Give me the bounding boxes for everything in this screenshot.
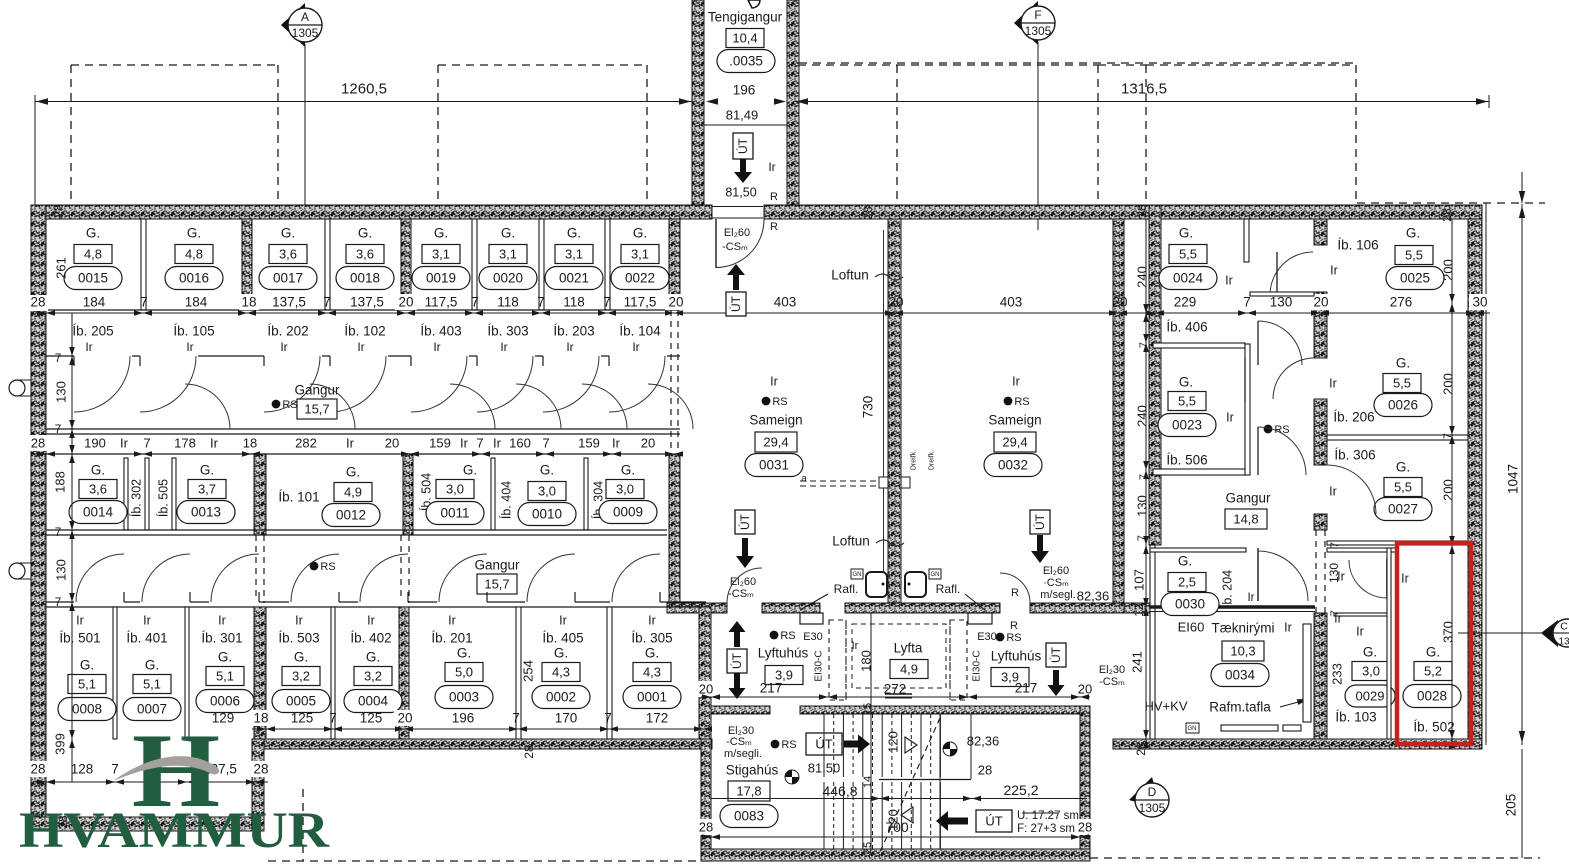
partition 0021/0022 — [605, 219, 610, 310]
svg-text:7: 7 — [604, 711, 612, 726]
svg-text:170: 170 — [555, 711, 578, 726]
door from tengigangur into building — [712, 206, 763, 208]
svg-text:Íb. 404: Íb. 404 — [498, 481, 513, 519]
svg-text:Lyftuhús: Lyftuhús — [991, 649, 1042, 664]
svg-text:5,5: 5,5 — [1394, 480, 1412, 495]
svg-text:4,8: 4,8 — [185, 247, 203, 262]
svg-text:Íb. 201: Íb. 201 — [431, 631, 472, 646]
svg-text:Íb. 105: Íb. 105 — [173, 324, 214, 339]
svg-text:GN: GN — [853, 572, 862, 578]
partition 0024 — [1244, 219, 1249, 262]
svg-text:7: 7 — [476, 436, 483, 451]
partition 0023 east — [1245, 344, 1250, 475]
svg-text:Ir: Ir — [143, 613, 151, 627]
svg-text:217: 217 — [1015, 681, 1038, 696]
partition 405/305 — [607, 607, 612, 739]
wall seg — [1124, 603, 1150, 613]
svg-text:RS: RS — [772, 396, 787, 408]
svg-text:E30: E30 — [977, 631, 997, 643]
svg-text:125: 125 — [291, 711, 314, 726]
svg-text:82,36: 82,36 — [967, 734, 1000, 749]
svg-text:0009: 0009 — [613, 505, 643, 520]
corridor 2 doors (bottom rooms) — [74, 599, 124, 605]
svg-text:18: 18 — [241, 295, 256, 310]
svg-text:7: 7 — [1329, 610, 1341, 616]
partition 302/505 — [145, 458, 149, 530]
svg-text:G.: G. — [145, 658, 159, 673]
svg-text:7: 7 — [1329, 542, 1341, 548]
svg-text:3,1: 3,1 — [565, 247, 583, 262]
svg-text:0014: 0014 — [83, 505, 114, 520]
svg-text:0017: 0017 — [273, 271, 303, 286]
svg-text:0015: 0015 — [78, 271, 108, 286]
wall y603 c — [845, 603, 1000, 613]
partition 0010/0009 — [584, 458, 588, 530]
dim row y782 far west — [35, 781, 268, 783]
partition 0017/0018 — [325, 219, 330, 310]
svg-text:196: 196 — [733, 83, 756, 98]
left wall protrusions — [20, 380, 31, 396]
svg-text:G.: G. — [1178, 554, 1192, 569]
svg-text:200: 200 — [1441, 479, 1456, 501]
dimension 1316,5 — [795, 101, 1489, 103]
svg-text:Ir: Ir — [85, 340, 92, 354]
svg-text:20: 20 — [1313, 295, 1328, 310]
svg-text:RS: RS — [780, 630, 795, 642]
dim row bottom rooms y729 — [252, 728, 711, 730]
svg-text:200: 200 — [1441, 259, 1456, 281]
dim row y454 — [35, 453, 681, 455]
svg-text:Íb. 501: Íb. 501 — [59, 631, 100, 646]
svg-text:20: 20 — [1112, 295, 1127, 310]
svg-text:0029: 0029 — [1356, 689, 1385, 704]
dashed outline bottom — [268, 860, 710, 862]
bottom wall west wing — [252, 739, 712, 749]
svg-text:R: R — [1010, 620, 1018, 632]
svg-text:F: F — [1034, 8, 1041, 22]
svg-text:130: 130 — [1270, 295, 1293, 310]
svg-text:3,0: 3,0 — [1362, 664, 1380, 679]
svg-text:G.: G. — [200, 463, 214, 478]
svg-text:Íb. 401: Íb. 401 — [126, 631, 167, 646]
svg-text:Loftun: Loftun — [832, 534, 870, 549]
svg-text:5,1: 5,1 — [143, 677, 161, 692]
svg-text:130: 130 — [1327, 563, 1341, 583]
svg-text:403: 403 — [1000, 295, 1023, 310]
svg-text:184: 184 — [83, 295, 106, 310]
svg-text:A: A — [301, 10, 309, 24]
svg-text:3,2: 3,2 — [292, 669, 310, 684]
svg-text:1047: 1047 — [1506, 464, 1521, 494]
top wall east — [764, 205, 1482, 219]
svg-text:Stigahús: Stigahús — [726, 763, 779, 778]
svg-text:240: 240 — [1135, 266, 1150, 288]
svg-text:25: 25 — [862, 842, 874, 854]
svg-text:Íb. 204: Íb. 204 — [1219, 570, 1234, 608]
svg-text:15,7: 15,7 — [304, 402, 329, 417]
svg-text:200: 200 — [1441, 373, 1456, 395]
svg-text:R: R — [770, 221, 778, 233]
svg-text:m/segl.: m/segl. — [1040, 589, 1075, 601]
svg-text:-CSₘ: -CSₘ — [1099, 676, 1125, 688]
svg-text:0032: 0032 — [998, 458, 1028, 473]
svg-text:Íb. 206: Íb. 206 — [1333, 410, 1374, 425]
svg-text:Ir: Ir — [186, 340, 193, 354]
svg-text:20: 20 — [641, 436, 655, 451]
svg-text:29,4: 29,4 — [763, 435, 788, 450]
svg-text:G.: G. — [645, 646, 659, 661]
svg-text:107: 107 — [1132, 569, 1147, 591]
svg-text:5,5: 5,5 — [1405, 248, 1423, 263]
svg-text:Gangur: Gangur — [1225, 491, 1271, 506]
svg-text:Tæknirými: Tæknirými — [1212, 621, 1275, 636]
east wing west wall lower — [1150, 545, 1155, 748]
UT exits from sameign rooms — [735, 510, 755, 534]
svg-text:Ir: Ir — [280, 340, 287, 354]
svg-text:3,6: 3,6 — [356, 247, 374, 262]
svg-text:F: 27+3 sm: F: 27+3 sm — [1017, 823, 1075, 835]
svg-text:20: 20 — [888, 295, 903, 310]
svg-text:R: R — [770, 191, 778, 203]
svg-text:G.: G. — [1426, 645, 1440, 660]
svg-text:Ir: Ir — [632, 340, 639, 354]
wall y603 b — [762, 603, 820, 613]
svg-text:Rafl.: Rafl. — [936, 582, 961, 596]
svg-text:Íb. 101: Íb. 101 — [278, 490, 319, 505]
east mid wall seg — [1314, 399, 1327, 465]
svg-text:28: 28 — [1440, 208, 1454, 222]
svg-text:4,8: 4,8 — [84, 247, 102, 262]
svg-text:Íb. 301: Íb. 301 — [201, 631, 242, 646]
svg-text:5,2: 5,2 — [1424, 664, 1442, 679]
east mid wall doors — [1273, 358, 1314, 399]
partition 401/301 — [185, 607, 189, 739]
svg-text:G.: G. — [1363, 645, 1377, 660]
svg-text:0008: 0008 — [72, 702, 102, 717]
svg-text:Íb. 104: Íb. 104 — [619, 324, 661, 339]
svg-text:G.: G. — [434, 226, 448, 241]
dashed line top right — [1357, 202, 1545, 204]
svg-text:5,5: 5,5 — [1178, 394, 1196, 409]
svg-text:0012: 0012 — [336, 508, 366, 523]
svg-text:Íb. 406: Íb. 406 — [1166, 320, 1207, 335]
svg-text:7: 7 — [1243, 295, 1251, 310]
svg-text:El₂60: El₂60 — [1043, 565, 1069, 577]
svg-text:Ir: Ir — [1247, 592, 1254, 604]
svg-text:Rafm.tafla: Rafm.tafla — [1209, 700, 1271, 715]
main dim row y313 — [35, 312, 1490, 314]
svg-text:ÚT: ÚT — [735, 137, 750, 154]
svg-text:Ir: Ir — [1012, 374, 1020, 388]
svg-text:7: 7 — [55, 525, 62, 539]
svg-text:Ir: Ir — [460, 436, 469, 451]
svg-text:Íb. 106: Íb. 106 — [1337, 238, 1378, 253]
svg-text:241: 241 — [1130, 651, 1145, 673]
svg-text:370: 370 — [1441, 621, 1456, 643]
svg-text:U: 17.27 sm: U: 17.27 sm — [1017, 810, 1079, 822]
svg-text:0006: 0006 — [210, 694, 240, 709]
east wing bottom wall — [1113, 739, 1482, 749]
svg-text:0022: 0022 — [625, 271, 655, 286]
svg-text:Tengigangur: Tengigangur — [708, 10, 783, 25]
svg-text:137,5: 137,5 — [350, 295, 384, 310]
svg-text:m/segli.: m/segli. — [724, 748, 762, 760]
svg-text:3,0: 3,0 — [538, 484, 556, 499]
svg-text:7: 7 — [542, 436, 549, 451]
svg-text:Ir: Ir — [76, 613, 84, 627]
svg-text:7: 7 — [1136, 535, 1148, 541]
partition 0019/0020 — [472, 219, 477, 310]
svg-text:G.: G. — [91, 463, 105, 478]
svg-text:Íb. 103: Íb. 103 — [1335, 710, 1376, 725]
hall south wall 0024 — [1250, 292, 1314, 296]
svg-text:Íb. 302: Íb. 302 — [128, 479, 143, 517]
svg-text:Ir: Ir — [295, 613, 303, 627]
svg-text:137,5: 137,5 — [272, 295, 306, 310]
svg-text:4,9: 4,9 — [344, 485, 362, 500]
svg-text:El₂60: El₂60 — [724, 227, 750, 239]
svg-text:118: 118 — [563, 295, 585, 310]
stigahus bottom wall — [701, 849, 1090, 861]
svg-text:3,1: 3,1 — [432, 247, 450, 262]
svg-text:Íb. 306: Íb. 306 — [1334, 448, 1375, 463]
svg-text:Ir: Ir — [346, 436, 355, 451]
svg-text:0010: 0010 — [532, 507, 562, 522]
svg-text:Lyftuhús: Lyftuhús — [758, 646, 809, 661]
svg-text:Ir: Ir — [852, 640, 859, 652]
svg-text:G.: G. — [187, 226, 201, 241]
dashed tie at y483 — [800, 480, 884, 482]
svg-text:-CSₘ: -CSₘ — [728, 588, 754, 600]
svg-text:254: 254 — [521, 660, 536, 682]
svg-text:Íb. 502: Íb. 502 — [1413, 720, 1454, 735]
svg-text:G.: G. — [358, 226, 372, 241]
svg-text:RS: RS — [282, 399, 297, 411]
svg-text:Íb. 102: Íb. 102 — [344, 324, 385, 339]
svg-text:2,5: 2,5 — [1178, 575, 1196, 590]
svg-text:0028: 0028 — [1417, 689, 1447, 704]
wall 0013/0012 — [254, 454, 266, 535]
svg-text:3,1: 3,1 — [499, 247, 517, 262]
svg-text:3,0: 3,0 — [616, 482, 634, 497]
svg-text:233: 233 — [1330, 663, 1345, 685]
svg-text:Ir: Ir — [448, 613, 456, 627]
svg-text:G.: G. — [346, 465, 360, 480]
wall y603 a — [667, 603, 727, 613]
svg-text:159: 159 — [429, 436, 451, 451]
svg-text:3,2: 3,2 — [364, 669, 382, 684]
svg-text:730: 730 — [861, 396, 876, 419]
east mid wall seg — [1314, 219, 1327, 245]
svg-text:G.: G. — [621, 463, 635, 478]
svg-text:0027: 0027 — [1388, 502, 1418, 517]
svg-text:7: 7 — [323, 295, 331, 310]
svg-text:Íb. 403: Íb. 403 — [420, 324, 461, 339]
svg-text:3,6: 3,6 — [279, 247, 297, 262]
svg-text:240: 240 — [1135, 405, 1150, 427]
top wall 0030 — [1150, 548, 1246, 552]
svg-text:28: 28 — [1135, 204, 1149, 218]
svg-text:117,5: 117,5 — [624, 295, 657, 310]
svg-text:Ir: Ir — [1329, 376, 1337, 390]
svg-text:20: 20 — [398, 295, 413, 310]
right outer dims — [1521, 204, 1523, 745]
wall right of sameign 0032 — [1113, 219, 1124, 603]
svg-text:28: 28 — [1078, 820, 1092, 835]
svg-text:125: 125 — [360, 711, 383, 726]
wall x670 upper — [669, 219, 680, 310]
svg-text:0002: 0002 — [546, 690, 576, 705]
svg-text:0005: 0005 — [286, 694, 316, 709]
svg-text:28: 28 — [522, 745, 536, 759]
svg-text:5,5: 5,5 — [1179, 247, 1197, 262]
svg-text:15,7: 15,7 — [484, 577, 509, 592]
svg-text:159: 159 — [578, 436, 600, 451]
svg-text:217: 217 — [760, 681, 783, 696]
east wing west wall — [1149, 205, 1161, 545]
wall under 0027 — [1327, 541, 1468, 545]
svg-text:Ir: Ir — [1329, 484, 1337, 498]
svg-text:Íb. 203: Íb. 203 — [553, 324, 594, 339]
svg-text:Loftun: Loftun — [831, 268, 869, 283]
svg-text:3,1: 3,1 — [631, 247, 649, 262]
svg-text:G.: G. — [463, 463, 477, 478]
svg-text:HV+KV: HV+KV — [1145, 699, 1188, 714]
lyftuhus left — [770, 631, 779, 640]
wall 0016/0017 — [242, 219, 252, 310]
svg-text:3,7: 3,7 — [198, 482, 216, 497]
stair dim row — [711, 798, 1087, 800]
svg-text:188: 188 — [53, 471, 68, 493]
partition 501/401 — [113, 607, 117, 739]
svg-text:5,1: 5,1 — [78, 677, 96, 692]
svg-text:1316,5: 1316,5 — [1121, 80, 1167, 97]
svg-text:ÚT: ÚT — [1032, 513, 1047, 530]
svg-text:28: 28 — [51, 204, 66, 218]
svg-text:117,5: 117,5 — [425, 295, 458, 310]
partition 201/405 — [516, 607, 521, 739]
svg-text:7: 7 — [1138, 474, 1150, 480]
svg-text:EI30-C: EI30-C — [814, 650, 825, 681]
stigahus top wall a — [701, 706, 770, 714]
svg-text:1260,5: 1260,5 — [341, 80, 387, 97]
svg-text:RS: RS — [781, 739, 796, 751]
svg-text:a: a — [801, 474, 807, 485]
svg-text:7: 7 — [471, 295, 479, 310]
svg-text:7: 7 — [537, 295, 545, 310]
svg-text:Ir: Ir — [433, 340, 440, 354]
svg-text:ÚT: ÚT — [985, 814, 1002, 829]
svg-text:276: 276 — [1390, 295, 1413, 310]
svg-text:G.: G. — [1179, 375, 1193, 390]
svg-text:18: 18 — [243, 436, 257, 451]
partition 0014/302 — [124, 458, 128, 530]
svg-text:Íb. 202: Íb. 202 — [267, 324, 308, 339]
svg-text:7: 7 — [603, 295, 611, 310]
svg-text:225,2: 225,2 — [1003, 782, 1038, 798]
partition 505/0013 — [172, 458, 176, 530]
svg-text:Íb. 205: Íb. 205 — [72, 324, 113, 339]
svg-text:0003: 0003 — [449, 690, 479, 705]
svg-text:7: 7 — [140, 295, 148, 310]
svg-text:3,6: 3,6 — [89, 482, 107, 497]
partition 503/402 — [331, 607, 335, 739]
section marker A — [281, 3, 305, 47]
svg-text:ÚT: ÚT — [729, 652, 744, 669]
svg-text:0034: 0034 — [1225, 668, 1256, 683]
svg-text:0021: 0021 — [559, 271, 589, 286]
svg-text:G.: G. — [1406, 226, 1420, 241]
svg-text:ÚT: ÚT — [737, 513, 752, 530]
svg-text:Ir: Ir — [768, 160, 775, 174]
east wing left vertical dims — [1145, 219, 1147, 749]
svg-text:446,8: 446,8 — [822, 783, 857, 799]
svg-text:R: R — [1011, 587, 1019, 599]
svg-text:15: 15 — [862, 703, 874, 715]
right outer wall — [1468, 219, 1482, 739]
svg-text:Ir: Ir — [1401, 571, 1409, 585]
svg-text:0030: 0030 — [1175, 597, 1205, 612]
svg-text:160: 160 — [509, 436, 531, 451]
svg-text:7: 7 — [1138, 342, 1150, 348]
svg-text:G.: G. — [457, 646, 471, 661]
svg-text:G.: G. — [501, 226, 515, 241]
svg-text:28: 28 — [978, 763, 992, 778]
svg-text:ÚT: ÚT — [728, 295, 743, 312]
sinks at wall y603 — [866, 572, 887, 597]
svg-text:20: 20 — [1078, 682, 1092, 697]
svg-text:28: 28 — [699, 820, 713, 835]
svg-text:30: 30 — [1472, 295, 1487, 310]
svg-text:Íb. 506: Íb. 506 — [1166, 453, 1207, 468]
dimension 1260,5 — [35, 101, 692, 103]
svg-text:GN: GN — [931, 572, 940, 578]
svg-text:81,49: 81,49 — [726, 108, 759, 123]
svg-text:1305: 1305 — [1139, 801, 1166, 815]
svg-text:261: 261 — [54, 257, 69, 279]
east mid wall seg — [1314, 292, 1327, 358]
wall step west — [252, 739, 264, 831]
wall 0018/0019 — [401, 219, 411, 310]
svg-text:-CSₘ: -CSₘ — [726, 736, 752, 748]
wall x670 lower — [669, 454, 680, 612]
svg-text:196: 196 — [452, 711, 475, 726]
D marker — [1129, 777, 1156, 804]
svg-text:120: 120 — [886, 731, 901, 753]
hall top wall — [1327, 548, 1397, 552]
svg-text:118: 118 — [497, 295, 519, 310]
svg-text:178: 178 — [174, 436, 196, 451]
svg-text:El₂30: El₂30 — [1099, 664, 1125, 676]
svg-text:G.: G. — [86, 226, 100, 241]
svg-text:403: 403 — [774, 295, 797, 310]
svg-text:G.: G. — [1396, 356, 1410, 371]
svg-text:7: 7 — [111, 762, 119, 777]
partition 0020/0021 — [539, 219, 544, 310]
svg-text:0016: 0016 — [179, 271, 209, 286]
svg-text:0013: 0013 — [191, 505, 221, 520]
svg-text:128: 128 — [71, 762, 94, 777]
svg-text:0025: 0025 — [1400, 271, 1430, 286]
svg-text:20: 20 — [397, 711, 412, 726]
svg-text:1305: 1305 — [292, 26, 319, 40]
svg-text:29,4: 29,4 — [1002, 435, 1027, 450]
svg-text:Ir: Ir — [218, 613, 226, 627]
svg-text:GN: GN — [1188, 726, 1197, 732]
wall 206/306 — [1327, 435, 1468, 440]
svg-text:Ir: Ir — [648, 613, 656, 627]
svg-text:282: 282 — [295, 436, 317, 451]
